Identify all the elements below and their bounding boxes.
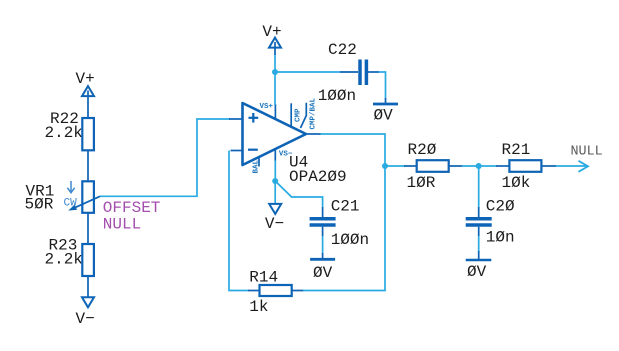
wire R22 to VR1 xyxy=(87,150,89,181)
junction output node xyxy=(382,163,388,169)
svg-text:OFFSET: OFFSET xyxy=(103,199,161,217)
wire C22 to ground xyxy=(379,72,386,99)
svg-text:V−: V− xyxy=(265,215,284,233)
wire R21 to NULL port xyxy=(556,165,587,167)
pin VS+ of U4 xyxy=(260,103,276,119)
wire wiper to op-amp + input xyxy=(100,119,230,196)
power symbol V+ (above U4) xyxy=(262,23,281,55)
pin CMP of U4 xyxy=(291,103,302,127)
svg-text:NULL: NULL xyxy=(103,216,141,234)
svg-text:C21: C21 xyxy=(331,198,360,216)
pin VS- of U4 xyxy=(275,149,293,161)
wire R14 to output node xyxy=(303,168,385,291)
wire VS- pin to V- node xyxy=(274,161,276,182)
wire VR1 to R23 xyxy=(87,213,89,244)
svg-text:1k: 1k xyxy=(249,298,268,316)
port arrow NULL xyxy=(571,145,603,172)
resistor R21 xyxy=(496,141,556,192)
capacitor C21 xyxy=(310,198,370,250)
wire V- node to C21 xyxy=(275,181,322,207)
wire C21 to ground xyxy=(322,236,324,254)
pin CMP/BAL of U4 xyxy=(301,97,318,129)
svg-text:ØV: ØV xyxy=(467,263,487,281)
svg-text:CMP: CMP xyxy=(295,108,303,122)
svg-text:VS−: VS− xyxy=(279,151,293,159)
label OFFSET NULL xyxy=(103,199,161,234)
junction V+ node xyxy=(272,69,278,75)
capacitor C22 xyxy=(318,41,379,105)
op-amp U4 OPA209 xyxy=(243,103,347,186)
power symbol V- (left) xyxy=(76,276,95,328)
svg-text:2.2k: 2.2k xyxy=(45,251,83,269)
svg-text:R14: R14 xyxy=(249,269,278,287)
resistor R14 xyxy=(248,269,304,317)
svg-text:CMP/BAL: CMP/BAL xyxy=(310,97,318,129)
ground 0V (below C20) xyxy=(466,251,492,281)
op-amp U1 inverting input stub xyxy=(231,150,243,152)
wire output node to R20 xyxy=(385,165,405,167)
svg-text:1Øn: 1Øn xyxy=(486,229,515,247)
svg-text:1ØØn: 1ØØn xyxy=(331,231,369,249)
svg-text:V+: V+ xyxy=(76,70,95,88)
pin BAL of U4 xyxy=(253,157,261,174)
capacitor C20 xyxy=(466,198,515,247)
svg-text:5ØR: 5ØR xyxy=(25,196,54,214)
svg-text:CW: CW xyxy=(64,197,78,209)
svg-text:BAL: BAL xyxy=(253,159,261,173)
op-amp U4 output stub xyxy=(306,133,321,135)
wire op-amp output to node xyxy=(321,134,386,166)
svg-text:V+: V+ xyxy=(262,23,281,41)
power symbol V+ (left) xyxy=(76,70,95,118)
wire C20 to ground xyxy=(478,236,480,252)
ground 0V (right of C22) xyxy=(373,98,398,125)
wire tee node to C20 xyxy=(478,166,480,207)
svg-text:ØV: ØV xyxy=(374,107,394,125)
svg-text:OPA2Ø9: OPA2Ø9 xyxy=(289,168,347,186)
wire V+ node to C22 xyxy=(275,71,340,73)
junction tee node xyxy=(476,163,482,169)
wire V- node down xyxy=(274,181,276,210)
wire tee node to R21 xyxy=(479,165,497,167)
wire inverting input to R14 xyxy=(229,151,249,291)
svg-text:R2Ø: R2Ø xyxy=(408,141,437,159)
potentiometer VR1 xyxy=(25,181,101,213)
svg-text:1Øk: 1Øk xyxy=(502,174,531,192)
svg-text:NULL: NULL xyxy=(571,145,603,160)
svg-text:C22: C22 xyxy=(328,41,357,59)
wire V+ to VS+ pin xyxy=(274,55,276,105)
svg-text:ØV: ØV xyxy=(313,264,333,282)
junction V- node xyxy=(272,178,278,184)
ground 0V (below C21) xyxy=(310,253,335,282)
svg-text:1ØR: 1ØR xyxy=(407,174,436,192)
CW marker of VR1 xyxy=(64,181,78,209)
power symbol V- (below U4) xyxy=(265,204,284,233)
op-amp U1 noninverting input stub xyxy=(229,118,243,120)
resistor R23 xyxy=(45,237,94,277)
svg-text:V−: V− xyxy=(76,310,95,328)
resistor R22 xyxy=(45,110,94,150)
svg-text:C2Ø: C2Ø xyxy=(486,198,515,216)
svg-text:2.2k: 2.2k xyxy=(45,124,83,142)
svg-text:R21: R21 xyxy=(502,141,531,159)
resistor R20 xyxy=(404,141,462,192)
svg-text:VS+: VS+ xyxy=(260,103,274,111)
wire R20 to tee node xyxy=(462,165,479,167)
svg-text:1ØØn: 1ØØn xyxy=(318,87,356,105)
